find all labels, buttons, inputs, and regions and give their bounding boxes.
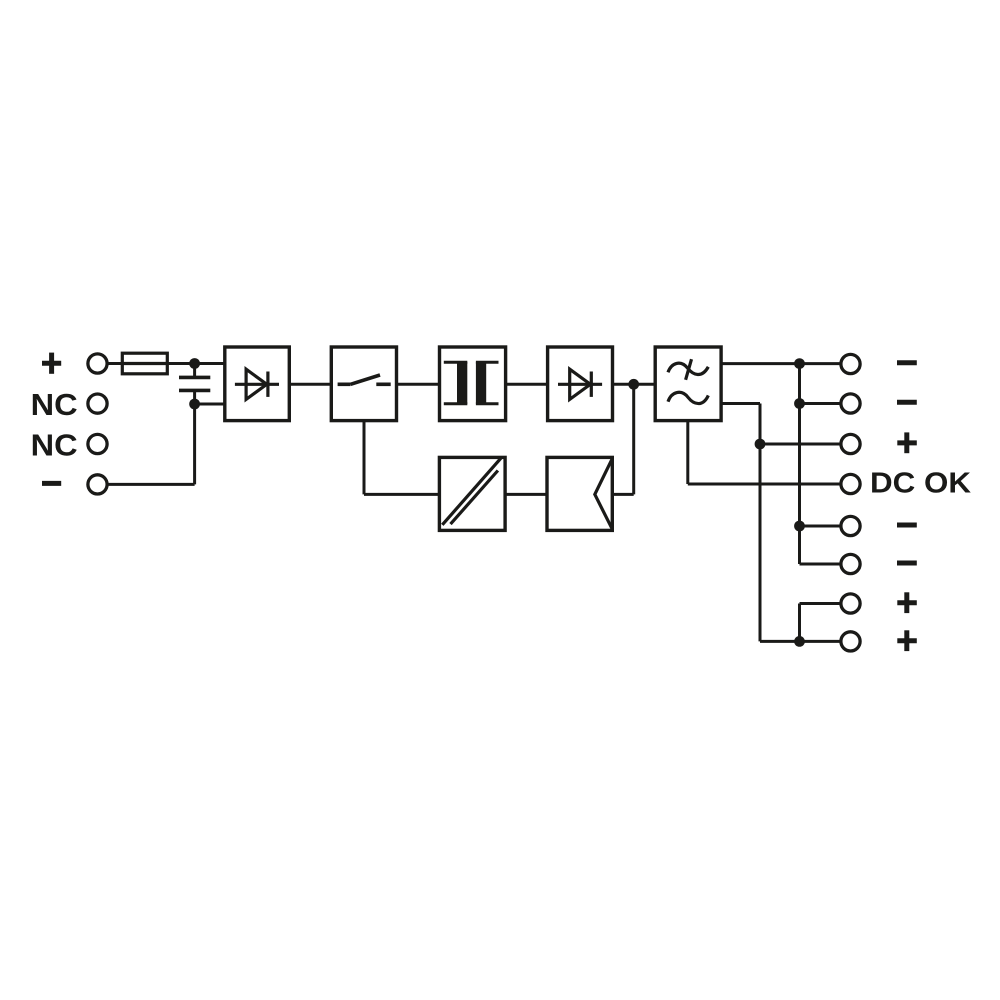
label + (input plus) — [42, 353, 61, 374]
regulator slash short — [451, 471, 498, 525]
wire elbow to terminal + 7 — [800, 602, 841, 605]
output diode block U3 — [548, 347, 613, 421]
label - (terminal X2.2) — [897, 400, 917, 405]
transformer T1 primary winding — [444, 362, 468, 404]
wire U3 to filter block — [613, 383, 656, 386]
terminal X1.2 NC — [88, 394, 107, 413]
label - (terminal X2.6) — [897, 561, 917, 566]
wire - terminal to node B (horizontal) — [107, 483, 195, 486]
wire fuse to node A — [167, 362, 225, 365]
terminal X2.8 output + — [841, 632, 860, 651]
wire bus A vertical — [798, 364, 801, 564]
label + (terminal X2.7) — [897, 592, 917, 613]
terminal X2.7 output + — [841, 594, 860, 613]
transformer T1 secondary winding — [476, 362, 499, 404]
label + (terminal X2.3) — [897, 432, 917, 453]
node G junction dot — [794, 521, 805, 532]
wire - terminal to node B (vertical) — [193, 404, 196, 484]
wire node G to terminal minus 3 — [800, 525, 841, 528]
node B junction dot — [189, 399, 200, 410]
terminal X2.4 DC OK — [841, 474, 860, 493]
svg-text:NC: NC — [31, 428, 78, 462]
svg-text:DC OK: DC OK — [870, 468, 971, 500]
node H junction dot — [794, 636, 805, 647]
wire node F to terminal minus 2 — [800, 402, 841, 405]
switching stage block U2 — [331, 347, 396, 421]
capacitor C1 — [179, 377, 210, 390]
terminal X1.3 NC — [88, 434, 107, 453]
wire from + terminal to fuse — [107, 362, 122, 365]
node E junction dot — [755, 439, 766, 450]
feedback amplifier block U6 — [547, 457, 612, 530]
node F junction dot — [794, 398, 805, 409]
wire U6 to node C vertical — [612, 493, 633, 496]
filter sine wave top (crossed) — [668, 359, 708, 380]
capacitor C1 stub top — [193, 364, 196, 377]
wire U4 bottom pin down — [686, 421, 689, 484]
wire U2 bottom pin to regulator row — [363, 421, 366, 495]
wire bus A elbow to terminal minus 4 — [800, 563, 841, 566]
filter sine wave bottom — [668, 392, 708, 403]
wire U1 to switch block — [289, 383, 331, 386]
wire U4 second output horizontal — [721, 402, 760, 405]
wire node H up to terminal + 7 — [798, 604, 801, 642]
label + (terminal X2.8) — [897, 630, 917, 651]
node D junction dot — [794, 358, 805, 369]
wire node E to terminal + — [760, 443, 840, 446]
terminal X1.1 input + — [88, 354, 107, 373]
switch S1 inside U2 — [338, 375, 391, 384]
svg-text:NC: NC — [31, 388, 78, 422]
terminal X2.5 output - — [841, 516, 860, 535]
wire U4 top output to terminal row — [721, 362, 840, 365]
wire U5 to feedback block — [505, 493, 547, 496]
filter block U4 — [655, 347, 721, 421]
terminal X2.6 output - — [841, 554, 860, 573]
regulator block U5 — [439, 457, 505, 530]
wire node A to rectifier upper input — [195, 362, 225, 365]
wire node C down to feedback block — [632, 384, 635, 494]
wire bottom bus to terminal + 8 — [760, 640, 840, 643]
wire DC OK to terminal — [688, 483, 840, 486]
wire T1 to output diode — [506, 383, 548, 386]
label - (terminal X2.1) — [897, 360, 917, 365]
feedback chevron — [595, 459, 613, 530]
transformer block T1 — [440, 347, 506, 421]
input rectifier block U1 — [225, 347, 289, 421]
label - (terminal X2.5) — [897, 523, 917, 528]
node A junction dot — [189, 358, 200, 369]
capacitor C1 stub bottom — [193, 392, 196, 404]
fuse F1 — [122, 353, 167, 374]
terminal X2.3 output + — [841, 434, 860, 453]
terminal X1.4 input - — [88, 475, 107, 494]
wire U2 to transformer — [397, 383, 440, 386]
terminal X2.2 output - — [841, 394, 860, 413]
wire bus B vertical — [759, 404, 762, 642]
label - (input minus) — [42, 481, 61, 486]
wire regulator row horizontal to regulator — [364, 493, 439, 496]
diode D1 inside U1 — [235, 369, 279, 399]
regulator slash long — [442, 458, 501, 525]
diode D2 inside U3 — [558, 369, 602, 399]
wire node B to rectifier lower input — [195, 403, 225, 406]
terminal X2.1 output - — [841, 354, 860, 373]
node C junction dot — [628, 379, 639, 390]
